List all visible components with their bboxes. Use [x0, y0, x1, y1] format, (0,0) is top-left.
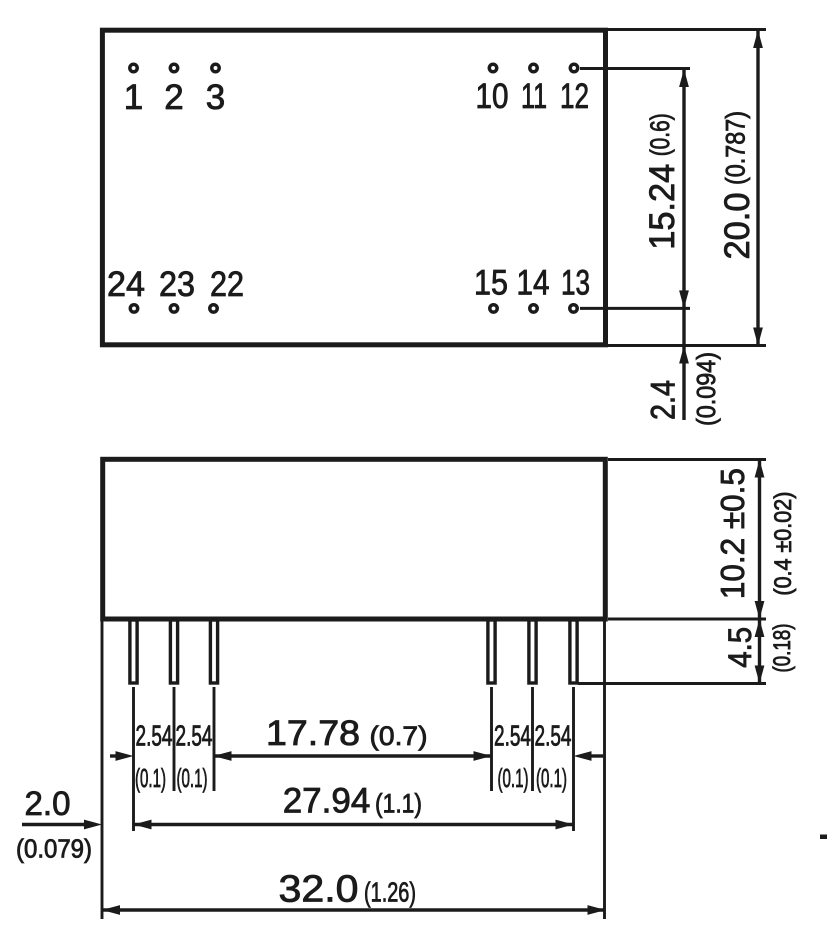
svg-text:15.24: 15.24 [644, 164, 682, 250]
svg-text:24: 24 [107, 266, 145, 304]
svg-text:(0.6): (0.6) [646, 113, 676, 156]
svg-text:11: 11 [521, 77, 547, 116]
svg-text:(0.1): (0.1) [536, 764, 567, 793]
svg-text:14: 14 [516, 263, 549, 302]
svg-text:(0.079): (0.079) [16, 835, 92, 864]
svg-text:10.2 ±0.5: 10.2 ±0.5 [714, 468, 751, 599]
svg-text:2.54: 2.54 [136, 721, 173, 753]
svg-text:(1.1): (1.1) [375, 789, 422, 819]
svg-text:23: 23 [159, 265, 195, 304]
svg-text:(0.7): (0.7) [369, 721, 427, 751]
svg-text:(0.18): (0.18) [769, 624, 796, 673]
svg-text:3: 3 [206, 78, 225, 117]
svg-text:1: 1 [124, 78, 143, 117]
svg-text:13: 13 [561, 263, 590, 303]
svg-text:(0.1): (0.1) [176, 764, 207, 793]
svg-text:20.0: 20.0 [719, 193, 757, 260]
svg-text:10: 10 [475, 77, 508, 116]
svg-text:32.0: 32.0 [279, 868, 359, 910]
svg-text:4.5: 4.5 [722, 627, 758, 668]
svg-text:2.54: 2.54 [535, 721, 572, 753]
svg-text:27.94: 27.94 [283, 782, 371, 821]
svg-text:2.54: 2.54 [494, 721, 531, 753]
svg-text:(1.26): (1.26) [364, 877, 416, 908]
svg-text:2.4: 2.4 [643, 380, 682, 420]
svg-text:(0.1): (0.1) [497, 764, 528, 793]
svg-text:17.78: 17.78 [266, 713, 360, 753]
svg-text:2: 2 [164, 78, 183, 117]
svg-text:15: 15 [474, 263, 508, 302]
svg-text:(0.094): (0.094) [693, 352, 721, 426]
svg-text:(0.4 ±0.02): (0.4 ±0.02) [769, 492, 796, 596]
svg-text:(0.787): (0.787) [721, 111, 751, 185]
svg-text:12: 12 [560, 76, 589, 116]
svg-text:2.0: 2.0 [25, 786, 71, 823]
svg-text:(0.1): (0.1) [135, 764, 166, 793]
svg-text:22: 22 [210, 264, 244, 303]
svg-text:2.54: 2.54 [176, 721, 213, 753]
